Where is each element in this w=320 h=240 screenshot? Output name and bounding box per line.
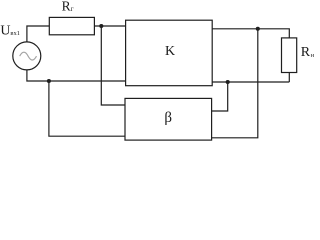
svg-text:K: K [165,44,175,59]
svg-text:вх1: вх1 [10,30,20,37]
svg-text:U: U [0,23,10,38]
svg-text:н: н [311,52,315,59]
svg-text:R: R [301,45,311,60]
svg-text:г: г [71,5,74,13]
svg-text:β: β [164,110,172,126]
svg-text:R: R [62,0,71,13]
